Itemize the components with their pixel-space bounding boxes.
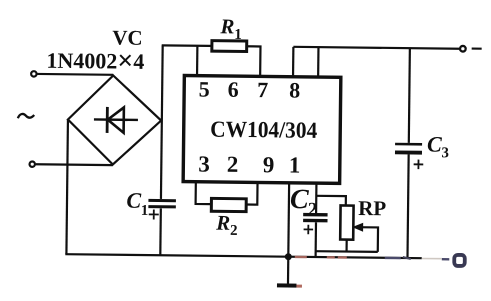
label: CW104/304 [210, 117, 318, 143]
pin 5 [199, 76, 210, 101]
resistor R2 [211, 198, 246, 211]
wire: top right rail to output terminal [293, 47, 459, 49]
svg-text:2: 2 [308, 199, 318, 220]
terminal: upper AC input [31, 71, 36, 76]
wire: ground rail (bottom) [65, 254, 421, 258]
wiper arrow of RP [353, 223, 378, 252]
wire: RP bottom stub [345, 240, 347, 252]
label: R1 [219, 14, 242, 43]
pin 8 [289, 77, 300, 102]
scan mark: red tick right of ground bar [296, 285, 301, 288]
wire: C3 bottom leg to rail [407, 154, 408, 258]
label: RP [358, 196, 386, 220]
scan mark: red dashes on ground rail [295, 256, 347, 259]
terminal: + output [460, 46, 466, 52]
resistor R1 [212, 41, 247, 52]
svg-text:2: 2 [227, 152, 239, 177]
wire: pin 8 stub a [292, 47, 295, 77]
wire: upper AC input to bridge top [37, 73, 113, 76]
svg-text:8: 8 [289, 77, 300, 102]
svg-text:3: 3 [198, 151, 210, 176]
wire: C2 node to RP top [316, 196, 346, 206]
junction dot [285, 253, 292, 260]
potentiometer RP body [340, 205, 353, 239]
svg-text:C: C [427, 132, 442, 157]
svg-text:C: C [290, 184, 309, 215]
svg-text:1: 1 [141, 203, 149, 219]
bridge rectifier VC diamond [67, 75, 161, 165]
wire: short dash right of + terminal [472, 47, 482, 49]
label: C2 [290, 184, 318, 220]
wire: C2 top leg from IC bottom [315, 183, 318, 213]
svg-text:5: 5 [199, 76, 210, 101]
wire: top rail from + node through R1 to pin 7 [161, 45, 260, 76]
svg-text:1N4002×4: 1N4002×4 [46, 45, 144, 77]
label: + of C1 [149, 209, 159, 219]
svg-text:R: R [215, 211, 230, 235]
svg-text:1: 1 [234, 27, 242, 43]
wire: C3 top leg from top rail [409, 48, 410, 143]
wire: bottom tie C2/RP [316, 250, 378, 253]
pin 2 [227, 152, 239, 177]
label: 1N4002x4 [46, 45, 144, 77]
pin 1 [289, 152, 301, 177]
scan mark: dark tick at C3 rail junction [403, 257, 411, 259]
ground [277, 257, 297, 286]
svg-text:3: 3 [441, 145, 449, 161]
label: ~ (AC) [18, 114, 34, 119]
svg-text:7: 7 [257, 77, 268, 102]
capacitor C2 [303, 215, 327, 221]
label: + of C3 [414, 160, 424, 170]
capacitor C1 [148, 200, 176, 207]
svg-text:CW104/304: CW104/304 [210, 117, 318, 143]
svg-text:RP: RP [358, 196, 386, 220]
capacitor C3 [395, 144, 422, 153]
label: VC [112, 25, 143, 49]
svg-text:9: 9 [263, 152, 275, 177]
wire: bridge + output vertical (top wire to C1 to rail) [160, 45, 162, 255]
label: C3 [427, 132, 449, 162]
pin 3 [198, 151, 210, 176]
svg-text:R: R [219, 14, 234, 38]
wire: bridge left vertex down to ground rail [66, 119, 68, 254]
wire: lower AC input to bridge bottom [36, 163, 113, 166]
wire: pin 1 vertical down to ground junction [287, 183, 290, 257]
op-amp U1 CW104/304 box [183, 76, 341, 184]
wire: pin 8 stub b [317, 47, 320, 77]
label: + of C2 [304, 225, 314, 235]
wire: pin 3 stub to R2 left [196, 182, 212, 204]
diode symbol inside bridge [94, 107, 138, 133]
pin 9 [263, 152, 275, 177]
svg-text:6: 6 [228, 77, 239, 102]
terminal: - output (navy blob) [454, 255, 465, 266]
svg-text:C: C [126, 188, 141, 213]
label: C1 [126, 188, 148, 219]
wire: R2 right to pin 9 stub [246, 182, 257, 204]
scan mark: faint rail segment [422, 258, 442, 260]
pin 6 [228, 77, 239, 102]
wire: C2 bottom leg to rail [314, 222, 317, 257]
svg-text:2: 2 [230, 223, 238, 239]
label: R2 [215, 211, 238, 239]
svg-text:1: 1 [289, 152, 301, 177]
scan mark: navy dashes on ground rail [385, 258, 450, 259]
terminal: lower AC input [30, 161, 35, 166]
pin 7 [257, 77, 268, 102]
wire: pin 5 stub [196, 46, 199, 76]
